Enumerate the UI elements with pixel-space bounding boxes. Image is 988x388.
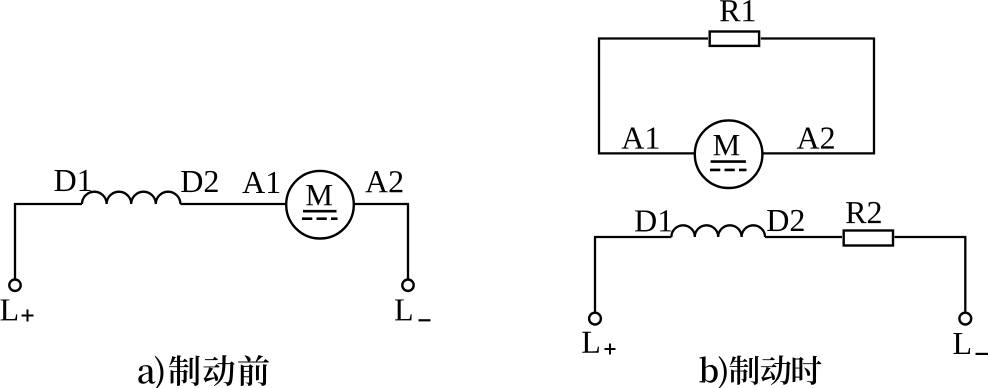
terminal circle L- (fig b) — [959, 313, 971, 325]
motor dashed bar (fig b) — [710, 169, 747, 172]
caption b) 制动时 — [699, 356, 717, 382]
wire: top loop right side (fig b) — [761, 39, 874, 154]
label A2 (fig b) — [797, 127, 820, 148]
motor M circle (fig b) — [695, 120, 763, 188]
resistor R2 box — [844, 231, 893, 246]
wire: D2 to motor armature A1 (fig a) — [180, 203, 286, 205]
label L- (fig b) — [953, 333, 970, 354]
motor U=M circle (fig a) — [286, 171, 354, 239]
motor letter M (fig a) — [306, 185, 332, 205]
label R1 — [720, 0, 740, 21]
wire: A2 to L- terminal (fig a) — [354, 204, 408, 280]
terminal circle L- (fig a) — [402, 280, 413, 291]
caption a) 制动前 — [138, 365, 155, 384]
inductor D1-D2 field winding (fig b) — [671, 225, 765, 237]
label A1 (fig b) — [622, 127, 645, 148]
label L+ (fig b) — [582, 332, 599, 353]
label A2 (fig a) — [365, 171, 388, 192]
label A1 (fig a) — [242, 172, 265, 193]
label R2 — [846, 202, 866, 223]
wire: L+ terminal up to D1 (fig b) — [595, 237, 671, 312]
wire: D2 to R2 (fig b) — [765, 236, 842, 238]
label D1 (fig a) — [55, 170, 76, 191]
label D1 (fig b) — [635, 210, 656, 231]
label D2 (fig a) — [181, 171, 202, 192]
wire: L+ terminal up and right to D1 (fig a) — [15, 204, 82, 280]
terminal circle L+ (fig a) — [9, 280, 20, 291]
wire: R2 to L- terminal (fig b) — [895, 237, 966, 312]
motor letter M (fig b) — [714, 135, 740, 155]
motor dashed bar (fig a) — [302, 217, 338, 220]
label L- (fig a) — [395, 299, 412, 320]
terminal circle L+ (fig b) — [589, 313, 601, 325]
resistor R1 box — [710, 32, 759, 46]
wire: top loop left side (fig b) — [599, 39, 708, 154]
label D2 (fig b) — [767, 210, 788, 231]
motor solid bar (fig b) — [711, 160, 746, 163]
motor solid bar (fig a) — [303, 210, 337, 213]
label L+ (fig a) — [1, 299, 18, 320]
inductor D1-D2 field winding (fig a) — [82, 192, 180, 204]
